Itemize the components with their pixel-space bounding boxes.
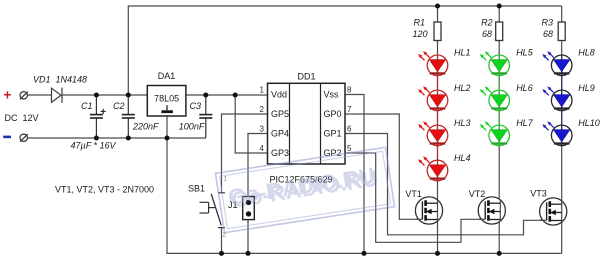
svg-text:Vss: Vss	[324, 90, 340, 100]
svg-text:GP5: GP5	[271, 109, 289, 119]
transistor VT3	[540, 198, 567, 225]
svg-text:HL5: HL5	[516, 48, 534, 58]
IC DD1	[268, 83, 346, 164]
wire ground rail left	[27, 137, 205, 139]
svg-text:GP4: GP4	[271, 129, 289, 139]
node C2 bottom	[126, 136, 131, 141]
svg-text:HL7: HL7	[516, 118, 534, 128]
svg-text:C3: C3	[189, 101, 201, 111]
svg-text:220nF: 220nF	[132, 122, 159, 132]
svg-text:GP1: GP1	[324, 129, 342, 139]
svg-text:HL8: HL8	[578, 48, 595, 58]
wire blue LED column	[561, 6, 563, 253]
wire pin3 GP4 to J1	[248, 134, 268, 197]
node R2 top rail	[497, 4, 502, 9]
wire C1 leads	[95, 95, 97, 114]
svg-text:GP3: GP3	[271, 148, 289, 158]
jumper J1	[243, 197, 255, 220]
svg-text:HL3: HL3	[454, 118, 471, 128]
svg-text:68: 68	[543, 29, 553, 39]
wire green LED column	[498, 6, 500, 253]
svg-text:1: 1	[260, 86, 265, 95]
svg-text:DD1: DD1	[297, 72, 315, 82]
svg-text:3: 3	[260, 125, 265, 134]
wire SB1 bottom to rail	[221, 228, 223, 254]
svg-text:+: +	[4, 88, 12, 103]
svg-text:R2: R2	[481, 17, 493, 27]
wire C3 leads	[205, 95, 207, 114]
LED HL5	[480, 51, 510, 76]
capacitor C3	[199, 115, 212, 118]
svg-text:R3: R3	[541, 17, 553, 27]
wire pin5 GP2 to VT2 gate	[345, 153, 485, 242]
node R1 top rail	[435, 4, 440, 9]
node GP3 riser junction	[233, 93, 238, 98]
node VT1 source ground	[435, 251, 440, 256]
svg-text:C2: C2	[113, 101, 125, 111]
svg-text:VD1 1N4148: VD1 1N4148	[33, 75, 87, 85]
LED HL7	[480, 121, 510, 146]
terminal + input	[20, 92, 28, 100]
red chain colored wire	[437, 55, 439, 181]
svg-text:SB1: SB1	[188, 184, 205, 194]
wire DA1 gnd lead	[166, 116, 168, 138]
wire pin8 Vss to ground	[345, 95, 364, 254]
svg-text:68: 68	[482, 29, 492, 39]
wire pin4 GP3 riser to +5	[235, 95, 267, 153]
LED HL10	[542, 121, 572, 146]
LED HL3	[418, 121, 448, 146]
svg-text:HL1: HL1	[454, 48, 471, 58]
svg-text:2: 2	[260, 105, 265, 114]
wire red LED column	[437, 6, 439, 253]
LED HL4	[418, 156, 448, 181]
node C1 bottom	[94, 136, 99, 141]
resistor R2	[496, 22, 503, 41]
regulator DA1	[147, 86, 186, 117]
watermark stamp Go-RADIO.RU	[215, 147, 394, 232]
LED HL9	[542, 86, 572, 111]
svg-text:7: 7	[347, 105, 352, 114]
svg-text:VT1, VT2, VT3 - 2N7000: VT1, VT2, VT3 - 2N7000	[55, 185, 154, 195]
node VT2 source ground	[497, 251, 502, 256]
button SB1	[200, 193, 226, 228]
wire pin7 GP0 to VT1 gate	[345, 114, 422, 219]
LED HL1	[418, 51, 448, 76]
node C1 top	[94, 93, 99, 98]
svg-text:VT1: VT1	[405, 189, 422, 199]
svg-text:DC 12V: DC 12V	[5, 113, 39, 123]
node C3 top	[203, 93, 208, 98]
LED HL2	[418, 86, 448, 111]
blue chain colored wire	[561, 55, 563, 146]
svg-text:120: 120	[412, 29, 427, 39]
node DA1 gnd junction	[165, 136, 170, 141]
diode VD1	[52, 88, 63, 103]
terminal - input	[20, 134, 28, 142]
wire top +12V rail	[128, 6, 561, 95]
LED HL8	[542, 51, 572, 76]
LED HL6	[480, 86, 510, 111]
capacitor C2	[122, 115, 135, 118]
node junction dots	[94, 4, 502, 256]
wire main +12V/+5V line	[27, 94, 51, 96]
node J1 ground	[246, 251, 251, 256]
node Vss ground	[362, 251, 367, 256]
svg-text:6: 6	[347, 125, 352, 134]
svg-text:HL10: HL10	[578, 118, 600, 128]
svg-text:DA1: DA1	[158, 71, 176, 81]
capacitor C1	[90, 115, 103, 118]
svg-text:47µF * 16V: 47µF * 16V	[71, 141, 117, 151]
transistor VT2	[478, 197, 505, 224]
transistor VT1	[415, 197, 442, 224]
wire DA1 ground drop to bottom rail	[167, 138, 562, 253]
wire C2 leads	[127, 95, 129, 114]
svg-text:C1: C1	[81, 101, 93, 111]
svg-text:1: 1	[224, 176, 228, 183]
svg-text:78L05: 78L05	[154, 94, 179, 104]
wire J1 bottom to rail	[247, 220, 249, 254]
wire pin6 GP1 to VT3 gate	[345, 134, 547, 235]
pin numbers	[260, 86, 352, 154]
svg-text:HL9: HL9	[578, 83, 595, 93]
green chain colored wire	[498, 55, 500, 146]
wire pin2 GP5 to SB1	[222, 114, 268, 193]
resistor R1	[434, 22, 441, 41]
svg-text:100nF: 100nF	[179, 122, 205, 132]
svg-text:R1: R1	[413, 17, 425, 27]
svg-text:HL2: HL2	[454, 83, 471, 93]
minus sign blue	[3, 136, 11, 139]
svg-text:GP0: GP0	[324, 109, 342, 119]
node C2/top-rail junction	[126, 93, 131, 98]
svg-text:4: 4	[260, 144, 265, 153]
svg-text:Vdd: Vdd	[271, 90, 287, 100]
node SB1 ground	[219, 251, 224, 256]
svg-text:VT2: VT2	[469, 189, 486, 199]
svg-text:HL6: HL6	[516, 83, 533, 93]
svg-text:8: 8	[347, 86, 352, 95]
svg-text:VT3: VT3	[530, 188, 547, 198]
svg-text:HL4: HL4	[454, 153, 471, 163]
resistor R3	[558, 22, 565, 41]
